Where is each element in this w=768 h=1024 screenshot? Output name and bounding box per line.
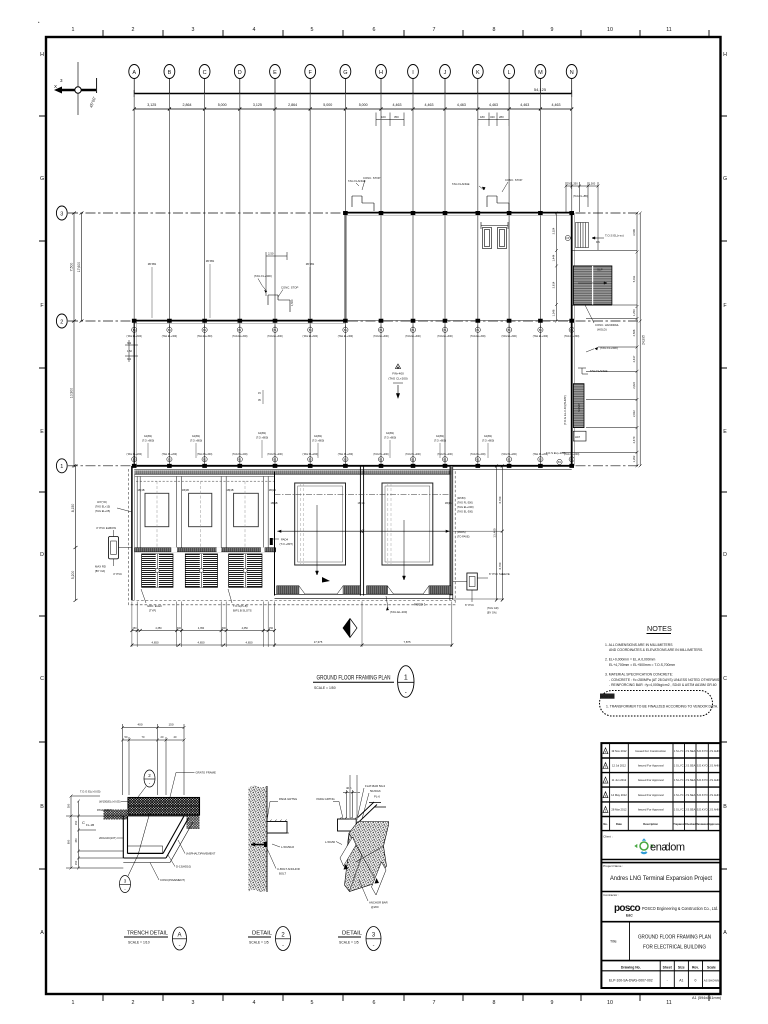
client row	[601, 860, 720, 863]
svg-text:(W150)EL(+0.05): (W150)EL(+0.05)	[99, 800, 121, 804]
svg-text:-: -	[373, 943, 375, 949]
svg-text:AND COORDINATES & ELEVATIONS A: AND COORDINATES & ELEVATIONS ARE IN MILL…	[609, 648, 703, 652]
hold list box	[600, 691, 713, 717]
svg-text:5,000: 5,000	[323, 103, 332, 107]
svg-text:(TAG EL+300): (TAG EL+300)	[405, 335, 421, 338]
svg-text:4,463: 4,463	[520, 103, 529, 107]
svg-text:PAD& GRTNG: PAD& GRTNG	[279, 797, 297, 801]
svg-text:2,864: 2,864	[183, 103, 192, 107]
svg-text:3: 3	[124, 879, 127, 884]
svg-text:I: I	[412, 70, 414, 76]
svg-text:(TAG EL-200): (TAG EL-200)	[390, 610, 407, 614]
north arrow	[54, 62, 97, 115]
svg-text:G1(B1): G1(B1)	[484, 434, 492, 438]
canopy columns K-L	[481, 222, 508, 249]
column tags above row 1	[132, 457, 575, 462]
svg-text:CONC. STOP: CONC. STOP	[363, 176, 380, 180]
svg-text:3/4"(YD): 3/4"(YD)	[97, 500, 107, 504]
svg-text:(TAG EL+15): (TAG EL+15)	[95, 505, 110, 509]
svg-text:17,375: 17,375	[314, 640, 323, 644]
dash-dot line across pads	[275, 494, 453, 496]
svg-text:180: 180	[480, 115, 485, 119]
svg-text:(TAG EL+300): (TAG EL+300)	[533, 335, 549, 338]
svg-text:B1: B1	[508, 458, 512, 461]
svg-text:1,52: 1,52	[127, 350, 132, 353]
svg-text:3,125: 3,125	[147, 103, 156, 107]
svg-text:4,650: 4,650	[152, 640, 159, 644]
grid bubble F	[305, 65, 316, 79]
svg-text:NOTES: NOTES	[647, 624, 672, 633]
svg-text:E: E	[723, 429, 727, 435]
svg-text:S.D.KYO: S.D.KYO	[697, 749, 708, 753]
overall dimension line 54,125	[134, 87, 572, 97]
svg-text:Description: Description	[643, 822, 658, 826]
diamond detail marker	[343, 619, 357, 638]
svg-text:450: 450	[74, 838, 78, 843]
svg-text:6" PVC: 6" PVC	[465, 603, 474, 607]
svg-text:-: -	[124, 887, 126, 892]
svg-text:C: C	[203, 70, 207, 76]
svg-text:14 May 2012: 14 May 2012	[611, 793, 627, 797]
detail 2 stipple wall	[249, 786, 268, 892]
svg-text:Checked: Checked	[685, 822, 697, 826]
svg-text:8,150: 8,150	[71, 504, 75, 513]
grid bubble C	[199, 65, 210, 79]
svg-text:10: 10	[607, 1000, 613, 1006]
right row letters	[723, 52, 727, 936]
svg-text:1: 1	[72, 27, 75, 33]
svg-text:Date: Date	[616, 822, 622, 826]
svg-text:(TAG FL+400): (TAG FL+400)	[254, 274, 272, 278]
svg-text:(TAG PL+200): (TAG PL+200)	[564, 453, 580, 456]
svg-text:302: 302	[127, 342, 132, 345]
stair flight hatch	[573, 266, 612, 305]
svg-text:340: 340	[490, 115, 495, 119]
svg-text:J.S.LYC: J.S.LYC	[674, 764, 684, 768]
svg-text:3: 3	[372, 933, 376, 939]
svg-text:PAVEMENT: PAVEMENT	[97, 808, 112, 812]
svg-text:[BY OA]: [BY OA]	[487, 611, 497, 615]
svg-text:(T.O.+800): (T.O.+800)	[482, 438, 494, 442]
svg-text:Issued For Construction: Issued For Construction	[635, 749, 666, 753]
grid bubble G	[340, 65, 351, 79]
svg-text:8: 8	[493, 1000, 496, 1006]
svg-text:T.O.S EL(+200): T.O.S EL(+200)	[546, 451, 565, 455]
svg-text:13,400: 13,400	[492, 528, 496, 538]
detail A bubbles	[135, 770, 155, 801]
svg-text:11 Jun 2012: 11 Jun 2012	[612, 778, 627, 782]
svg-text:(TAG EL+300): (TAG EL+300)	[232, 335, 248, 338]
grid bubble D	[234, 65, 245, 79]
svg-text:(TAG PL+200): (TAG PL+200)	[501, 453, 517, 456]
svg-text:4" PVC ELBOW: 4" PVC ELBOW	[96, 526, 116, 530]
svg-text:G: G	[723, 176, 727, 182]
svg-text:H: H	[40, 52, 44, 58]
svg-text:L: L	[508, 70, 511, 76]
svg-text:9: 9	[551, 27, 554, 33]
svg-text:1,250: 1,250	[632, 309, 636, 316]
hatch box below sump	[573, 431, 586, 441]
svg-text:D: D	[40, 552, 44, 558]
wall on row 2 (A to G)	[134, 322, 345, 324]
FIN symbol center	[388, 364, 407, 398]
svg-text:40.5: 40.5	[346, 786, 352, 790]
svg-text:J.S.AHN: J.S.AHN	[709, 749, 719, 753]
column marks row 2	[132, 319, 574, 323]
row grid lines and walls	[56, 206, 640, 602]
annex top dims	[565, 182, 600, 250]
svg-text:A: A	[40, 930, 44, 936]
svg-text:(TAG FL+400): (TAG FL+400)	[600, 346, 618, 350]
svg-text:1: 1	[72, 1000, 75, 1006]
svg-text:4,350: 4,350	[198, 627, 205, 630]
svg-text:3: 3	[60, 211, 63, 217]
svg-text:(TAG PL+200): (TAG PL+200)	[162, 453, 178, 456]
svg-text:E: E	[40, 429, 44, 435]
svg-text:2: 2	[148, 773, 151, 778]
svg-text:G1(B1): G1(B1)	[192, 434, 200, 438]
svg-text:B1: B1	[203, 458, 207, 461]
trench detail top dims	[121, 724, 186, 795]
row bubble 2	[56, 314, 67, 328]
svg-text:7: 7	[433, 1000, 436, 1006]
svg-text:B: B	[723, 804, 727, 810]
svg-text:Issued For Approval: Issued For Approval	[638, 778, 664, 782]
svg-text:4,650: 4,650	[198, 640, 205, 644]
svg-text:0: 0	[694, 979, 696, 983]
left dim vertical	[66, 795, 123, 870]
svg-text:(TAG FL+B5): (TAG FL+B5)	[573, 195, 588, 198]
svg-text:(TAG PL+200): (TAG PL+200)	[267, 453, 283, 456]
svg-text:4" PVC: 4" PVC	[113, 572, 122, 576]
svg-text:posco: posco	[614, 903, 641, 914]
left zone ticks	[39, 116, 46, 869]
svg-text:L-50x50: L-50x50	[325, 840, 336, 844]
svg-text:J.S.SEA: J.S.SEA	[685, 749, 695, 753]
svg-text:10: 10	[607, 27, 613, 33]
svg-text:(TAG PL+200): (TAG PL+200)	[197, 453, 213, 456]
dashed yard outline	[129, 469, 456, 605]
detail 3 flat bar	[356, 802, 377, 822]
svg-text:4,350: 4,350	[155, 627, 162, 630]
louver blocks	[142, 554, 173, 587]
svg-text:7,875: 7,875	[404, 640, 411, 644]
svg-text:400: 400	[137, 723, 142, 727]
svg-text:2,470: 2,470	[632, 436, 636, 443]
svg-text:3,614: 3,614	[552, 281, 556, 288]
svg-text:1,500: 1,500	[589, 182, 596, 186]
svg-text:B1: B1	[238, 458, 242, 461]
ramp trapezoids	[299, 586, 343, 594]
svg-text:(T.O.+80T): (T.O.+80T)	[280, 542, 294, 546]
svg-text:SLP: SLP	[597, 268, 603, 272]
grating band	[128, 798, 200, 816]
svg-text:350: 350	[573, 182, 578, 186]
thin vertical grid lines A-N	[134, 94, 572, 467]
svg-text:CONC. HANDRAIL: CONC. HANDRAIL	[595, 323, 619, 327]
svg-text:B1: B1	[412, 458, 416, 461]
svg-text:C: C	[40, 676, 44, 682]
svg-text:(TAG EL+300): (TAG EL+300)	[197, 335, 213, 338]
svg-text:FOR ELECTRICAL BUILDING: FOR ELECTRICAL BUILDING	[643, 945, 706, 951]
svg-text:(TAG EL+300): (TAG EL+300)	[303, 335, 319, 338]
svg-text:3: 3	[192, 27, 195, 33]
bottom zone ticks	[103, 994, 709, 1001]
svg-text:PAD4: PAD4	[281, 538, 289, 542]
svg-text:50: 50	[125, 735, 128, 739]
svg-text:ELP-100-SA-DWG-0007-002: ELP-100-SA-DWG-0007-002	[609, 979, 653, 983]
svg-text:-: -	[667, 979, 668, 983]
svg-text:4: 4	[253, 27, 256, 33]
svg-text:(TAG EL+300): (TAG EL+300)	[162, 335, 178, 338]
grid bubble L	[504, 65, 515, 79]
svg-text:(TAG PL+200): (TAG PL+200)	[373, 453, 389, 456]
plan title	[313, 666, 414, 698]
grid bubble I	[408, 65, 419, 79]
svg-text:Issued For Approval: Issued For Approval	[638, 808, 664, 812]
arrows inside pads	[322, 577, 330, 583]
svg-text:(HOLD): (HOLD)	[597, 328, 607, 332]
svg-text:G: G	[40, 176, 44, 182]
pad center dashed lines	[157, 481, 245, 548]
grid bubble M	[535, 65, 546, 79]
row bubble 1	[56, 459, 67, 473]
svg-text:(TAG PL+200): (TAG PL+200)	[437, 453, 453, 456]
svg-text:50x50x6: 50x50x6	[370, 789, 381, 793]
svg-text:J.S.LYC: J.S.LYC	[674, 778, 684, 782]
svg-text:6" PVC SLEEVE: 6" PVC SLEEVE	[489, 572, 510, 576]
svg-text:2,822: 2,822	[632, 382, 636, 389]
svg-text:11: 11	[666, 27, 672, 33]
conc stop step symbol 1 (top)	[352, 196, 374, 211]
right yard hatched right edge	[450, 466, 453, 596]
svg-text:(TAG EL+300): (TAG EL+300)	[470, 335, 486, 338]
top zone ticks	[103, 30, 709, 37]
svg-text:B: B	[40, 804, 44, 810]
svg-text:B1: B1	[444, 458, 448, 461]
svg-text:70: 70	[142, 735, 145, 739]
svg-text:1B|1B: 1B|1B	[271, 501, 278, 505]
svg-text:2B 5B1: 2B 5B1	[148, 262, 157, 266]
svg-text:(TAG EL+300): (TAG EL+300)	[564, 335, 580, 338]
svg-text:CONC. STOP: CONC. STOP	[505, 178, 522, 182]
left dim row 2	[132, 644, 452, 646]
row grid line 2	[56, 314, 640, 328]
svg-text:Issued For Approval: Issued For Approval	[638, 764, 664, 768]
svg-text:2,437: 2,437	[632, 355, 636, 362]
svg-text:2: 2	[60, 319, 63, 325]
svg-text:T.O.G EL(+0.05): T.O.G EL(+0.05)	[80, 790, 101, 794]
wall on row 1 (A to N)	[134, 465, 572, 467]
svg-text:D: D	[238, 70, 242, 76]
bay divider walls	[137, 476, 268, 548]
svg-text:2: 2	[132, 27, 135, 33]
svg-text:1B|1B: 1B|1B	[445, 501, 452, 505]
svg-text:F: F	[723, 303, 727, 309]
svg-text:1B|1B: 1B|1B	[227, 488, 234, 492]
yard bottom double band	[275, 594, 453, 598]
svg-text:3: 3	[60, 78, 63, 83]
grid bubble K	[472, 65, 483, 79]
svg-text:J.S.AHN: J.S.AHN	[709, 764, 719, 768]
svg-text:7,500: 7,500	[70, 263, 74, 272]
svg-text:3,506: 3,506	[632, 229, 636, 236]
svg-text:B1: B1	[309, 458, 313, 461]
grid bubble N	[566, 65, 577, 79]
svg-text:FIN+400: FIN+400	[392, 372, 404, 376]
svg-text:Rev.: Rev.	[692, 965, 699, 969]
svg-text:6,700: 6,700	[498, 496, 502, 503]
svg-text:HOLD 1: HOLD 1	[414, 603, 426, 607]
dim arrow line across pads	[277, 530, 449, 532]
trench U walls	[123, 816, 188, 858]
svg-text:No.: No.	[603, 822, 608, 826]
detail 3 concrete mass	[345, 822, 389, 892]
svg-text:(T.O.G EL-0.40)(SUMP): (T.O.G EL-0.40)(SUMP)	[563, 395, 567, 425]
svg-text:SCALE = 1/5: SCALE = 1/5	[249, 941, 269, 945]
svg-text:J.S.SEA: J.S.SEA	[685, 793, 695, 797]
vertical grid lines	[134, 94, 572, 467]
svg-text:3. MATERIAL SPECIFICATION CONC: 3. MATERIAL SPECIFICATION CONCRETE:	[605, 673, 673, 677]
svg-text:2,50: 2,50	[268, 252, 274, 256]
svg-text:6,700: 6,700	[498, 562, 502, 569]
svg-text:PAD& GRTNG: PAD& GRTNG	[317, 797, 335, 801]
svg-text:TRENCH DETAIL: TRENCH DETAIL	[127, 931, 168, 937]
svg-text:600: 600	[67, 839, 71, 844]
plan title bubble	[398, 666, 414, 698]
svg-text:B1: B1	[380, 458, 384, 461]
svg-text:2B 5B1: 2B 5B1	[306, 262, 315, 266]
svg-text:N: N	[570, 70, 574, 76]
svg-text:F: F	[40, 303, 44, 309]
svg-text:J.S.AHN: J.S.AHN	[709, 778, 719, 782]
svg-text:[BY OA]: [BY OA]	[95, 569, 105, 573]
svg-text:L-50x50x6: L-50x50x6	[281, 845, 295, 849]
svg-text:(TAG PL+200): (TAG PL+200)	[338, 453, 354, 456]
svg-text:2B 5B1: 2B 5B1	[206, 259, 215, 263]
annotations	[125, 176, 522, 458]
center divider wall	[360, 466, 363, 596]
svg-text:1B|1B: 1B|1B	[138, 488, 145, 492]
svg-text:300: 300	[67, 803, 71, 808]
svg-text:J.S.LYC: J.S.LYC	[674, 808, 684, 812]
svg-text:(T.O.+800): (T.O.+800)	[190, 438, 202, 442]
bottom hatch strips	[277, 586, 299, 594]
svg-text:(T.O.+800): (T.O.+800)	[256, 435, 268, 439]
top zone numbers	[72, 27, 672, 33]
notes body	[605, 643, 722, 687]
svg-text:Contractor :: Contractor :	[603, 893, 619, 897]
left dim row 1	[132, 630, 275, 632]
6in PVC sleeve	[467, 573, 477, 590]
detail 2 bolt	[251, 844, 267, 846]
svg-text:(TAG PL+200): (TAG PL+200)	[232, 453, 248, 456]
svg-text:CONC(PAVEMENT): CONC(PAVEMENT)	[160, 878, 185, 882]
svg-text:6: 6	[373, 27, 376, 33]
svg-text:Approved: Approved	[708, 822, 721, 826]
svg-text:J.S.LYC: J.S.LYC	[674, 749, 684, 753]
wall on row 3 (G to N)	[345, 214, 571, 216]
svg-text:FL-1B: FL-1B	[86, 823, 94, 827]
svg-text:U-BOLT ANCHOR: U-BOLT ANCHOR	[277, 867, 300, 871]
svg-text:J.S.SEA: J.S.SEA	[685, 808, 695, 812]
grid bubble B	[164, 65, 175, 79]
yard left wall	[131, 466, 133, 600]
svg-text:G1(B1): G1(B1)	[258, 431, 266, 435]
svg-text:F: F	[309, 70, 313, 76]
svg-text:B1: B1	[539, 458, 543, 461]
svg-text:4,650: 4,650	[246, 640, 253, 644]
svg-text:SCALE = 1/10: SCALE = 1/10	[128, 941, 150, 945]
svg-text:(W150): (W150)	[457, 496, 466, 500]
yard top hatch strip	[135, 470, 452, 474]
svg-text:1,352: 1,352	[632, 455, 636, 462]
big pad 2	[382, 483, 433, 565]
svg-text:-: -	[149, 781, 151, 786]
svg-text:40: 40	[174, 735, 177, 739]
svg-text:B1: B1	[133, 458, 137, 461]
title block	[601, 743, 721, 988]
project row	[601, 891, 720, 893]
svg-text:300: 300	[177, 627, 182, 630]
detail 2 plate	[267, 822, 287, 834]
grid bubble A	[129, 65, 140, 79]
svg-text:1,500: 1,500	[290, 299, 294, 306]
svg-text:D: D	[723, 552, 727, 558]
svg-text:100: 100	[381, 115, 386, 119]
svg-text:J.S.SEA: J.S.SEA	[685, 764, 695, 768]
detail 3 vertical dim	[343, 790, 360, 818]
column marks row 3	[343, 211, 574, 215]
right wall grid N	[571, 213, 573, 466]
svg-text:G1(B1): G1(B1)	[386, 431, 394, 435]
svg-text:(TAG EL-300): (TAG EL-300)	[457, 510, 473, 514]
svg-text:10,900: 10,900	[70, 388, 74, 398]
svg-text:4,463: 4,463	[489, 103, 498, 107]
row bubble 3	[56, 206, 67, 220]
svg-text:B1: B1	[344, 458, 348, 461]
svg-text:(TAG GR): (TAG GR)	[487, 606, 499, 610]
svg-text:B1: B1	[274, 458, 278, 461]
svg-text:2. EL+0,000mm = EL.A.0,000mm: 2. EL+0,000mm = EL.A.0,000mm	[605, 658, 655, 662]
svg-text:G1(B1): G1(B1)	[144, 434, 152, 438]
left row letters	[40, 52, 44, 936]
enadom logo	[634, 838, 685, 854]
svg-text:3,524: 3,524	[552, 227, 556, 234]
conc stop step symbol 2 (top)	[487, 196, 509, 211]
svg-text:A: A	[723, 930, 727, 936]
svg-text:POSCO Engineering & Constructi: POSCO Engineering & Construction Co., Lt…	[642, 906, 718, 911]
svg-text:150: 150	[74, 820, 78, 825]
svg-text:Reviewed: Reviewed	[696, 822, 709, 826]
svg-text:S.D.KYO: S.D.KYO	[697, 808, 708, 812]
dark tick band	[135, 548, 276, 552]
svg-text:5,200: 5,200	[71, 571, 75, 580]
svg-text:9: 9	[551, 1000, 554, 1006]
svg-text:(TAG EL+300): (TAG EL+300)	[267, 335, 283, 338]
transformer yard	[95, 465, 510, 648]
svg-text:200x100(10T): 200x100(10T)	[99, 836, 116, 840]
svg-text:45°00': 45°00'	[88, 96, 97, 109]
details	[66, 723, 389, 951]
bottom gravel strip	[128, 846, 163, 853]
svg-text:(T.O.+800): (T.O.+800)	[434, 438, 446, 442]
svg-text:B: B	[168, 70, 172, 76]
svg-text:GROUND FLOOR FRAMING PLAN: GROUND FLOOR FRAMING PLAN	[638, 935, 711, 941]
svg-text:J.S.AHN: J.S.AHN	[709, 793, 719, 797]
svg-text:5,000: 5,000	[359, 103, 368, 107]
svg-text:(TAG PL+200): (TAG PL+200)	[470, 453, 486, 456]
